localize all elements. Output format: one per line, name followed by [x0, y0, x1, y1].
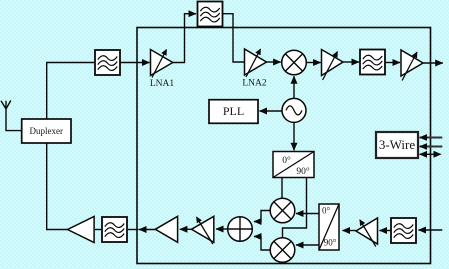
- svg-text:PLL: PLL: [223, 104, 244, 118]
- wire M1 to amp A3: [306, 62, 320, 64]
- amplifier A4 (variable gain): [401, 50, 423, 81]
- wire summer to amp A5: [216, 228, 228, 230]
- wire M3 to summer S1: [254, 237, 270, 251]
- wire A6 to filter F4: [139, 229, 155, 231]
- 3-wire interface box: [376, 132, 418, 158]
- svg-text:LNA1: LNA1: [150, 79, 175, 89]
- duplexer U1: [22, 119, 71, 143]
- wire F5 to A8: [380, 230, 392, 232]
- wire 3-wire control line 3 (bidirectional): [420, 151, 442, 158]
- wire F2 to LNA2: [223, 14, 245, 62]
- amplifier A3 (variable gain): [322, 50, 344, 81]
- outer enclosure box: [137, 28, 431, 264]
- wire H1 0-deg output to mixer M2: [281, 178, 283, 199]
- quadrature splitter H2 (0/90): [319, 204, 339, 250]
- filter F4: [102, 217, 127, 242]
- svg-text:LNA2: LNA2: [242, 79, 267, 89]
- svg-text:Duplexer: Duplexer: [30, 126, 64, 136]
- wire VCO to PLL: [260, 110, 283, 112]
- filter F3: [360, 50, 385, 75]
- svg-text:90°: 90°: [296, 166, 310, 177]
- svg-text:0°: 0°: [282, 155, 291, 166]
- wire LNA2 to mixer M1: [267, 61, 281, 63]
- wire A3 to filter F3: [343, 61, 359, 63]
- PLL box: [209, 100, 258, 124]
- wire F3 to amp A4: [385, 62, 400, 64]
- filter F2: [198, 2, 223, 27]
- wire H2 to mixer M3: [296, 244, 319, 246]
- wire LNA1 to filter F2: [173, 14, 196, 63]
- mixer M2: [270, 198, 295, 223]
- wire duplexer to filter F1: [47, 63, 94, 120]
- svg-text:0°: 0°: [322, 206, 331, 216]
- wire into filter F4: [128, 229, 139, 231]
- wire A7 to duplexer: [47, 144, 68, 230]
- wire A5 to amp A6: [180, 228, 192, 230]
- wire A4 output (RX out): [423, 62, 443, 64]
- wire antenna to duplexer: [5, 130, 22, 132]
- filter F5: [391, 218, 416, 243]
- amplifier LNA1: [151, 50, 173, 78]
- wire 3-wire control line 1: [420, 137, 443, 139]
- amplifier A8 (variable gain): [356, 218, 378, 247]
- wire TX input to F5: [419, 229, 443, 231]
- wire A8 to H2: [343, 230, 357, 232]
- svg-text:90°: 90°: [324, 238, 337, 248]
- wire H1 90-deg output to mixer M3: [283, 178, 307, 238]
- quadrature splitter H1 (0/90): [273, 152, 314, 178]
- filter F1: [95, 50, 120, 75]
- wire VCO to mixer M1 (LO port): [293, 76, 295, 98]
- mixer M3: [270, 238, 295, 263]
- amplifier LNA2: [245, 49, 267, 77]
- summer S1: [228, 217, 253, 242]
- svg-text:3-Wire: 3-Wire: [379, 137, 416, 152]
- wire 3-wire control line 2: [420, 146, 443, 148]
- wire VCO to quadrature splitter H1: [293, 122, 295, 150]
- wire H2 to mixer M2: [296, 213, 319, 215]
- antenna: [1, 101, 11, 131]
- wire F4 to amp A7: [95, 229, 102, 231]
- amplifier A5 (variable gain): [192, 216, 214, 244]
- wire F1 to LNA1: [121, 62, 150, 64]
- oscillator VCO: [282, 98, 306, 122]
- mixer M1: [282, 50, 307, 75]
- wire M2 to summer S1: [254, 211, 270, 222]
- amplifier A6: [155, 216, 177, 242]
- amplifier A7: [68, 217, 95, 243]
